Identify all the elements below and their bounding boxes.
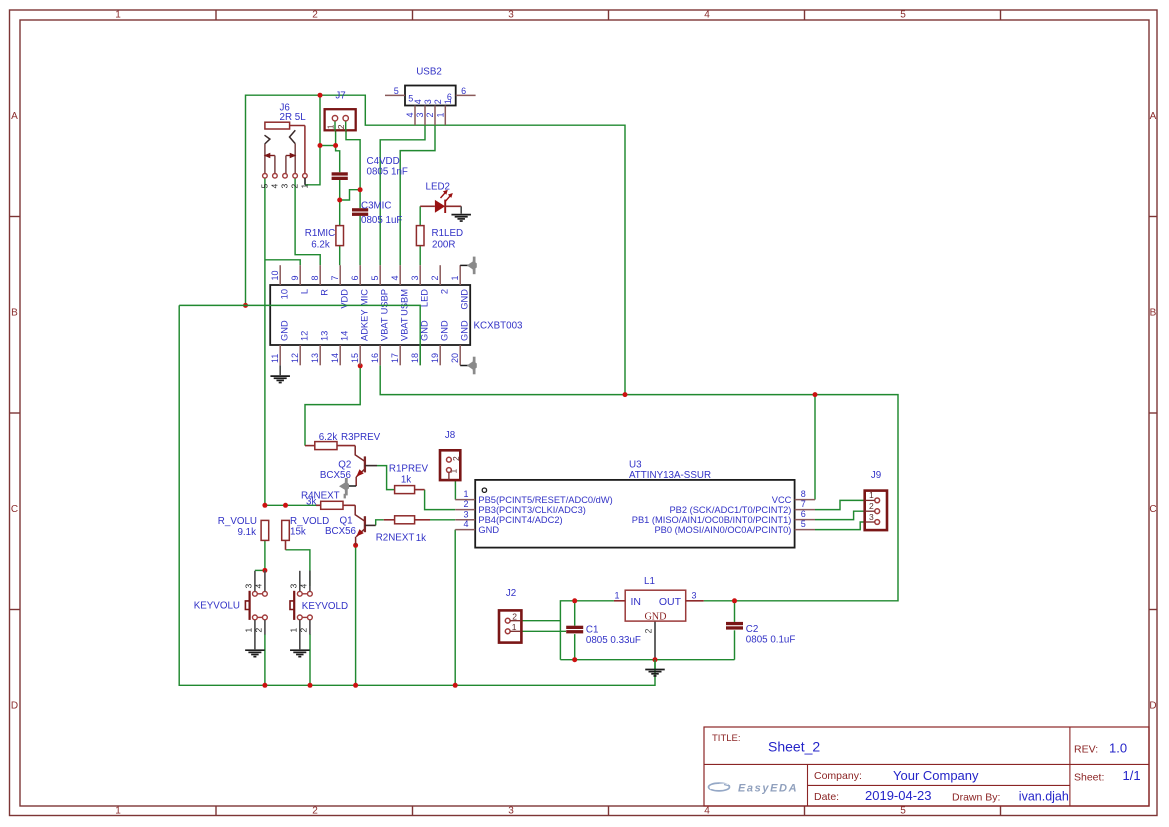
svg-text:3: 3 (244, 584, 254, 589)
svg-text:GND: GND (439, 320, 449, 341)
connector J8 (440, 450, 461, 480)
ground at KEYVOLD (290, 649, 310, 651)
resistor R1LED (416, 226, 424, 246)
svg-text:14: 14 (330, 353, 340, 363)
svg-text:Your Company: Your Company (893, 768, 979, 783)
wire node step C4VDD to C3MIC (340, 190, 360, 200)
wire KEYVOLD pin2 to gnd rail (309, 634, 311, 685)
wire key divider horizontal (265, 504, 316, 506)
wire U3 pin6 to J9 pin2 (815, 511, 865, 519)
wire J2 pin1 to gnd (521, 630, 566, 632)
svg-text:VBAT: VBAT (379, 317, 389, 341)
svg-text:0805 1nF: 0805 1nF (367, 167, 408, 178)
svg-text:3: 3 (415, 112, 425, 117)
svg-text:USBM: USBM (399, 289, 409, 316)
wire R1LED to pin3 LED (419, 246, 421, 266)
capacitor C2 (726, 622, 743, 625)
svg-text:7: 7 (330, 275, 340, 280)
wire R_VOLD to KEYVOLD pin4 (286, 550, 310, 586)
svg-text:3: 3 (691, 590, 696, 600)
svg-text:18: 18 (410, 353, 420, 363)
wire Q1 base jog to R2NEXT (376, 520, 384, 526)
svg-text:4: 4 (413, 99, 423, 104)
svg-text:A: A (11, 111, 18, 122)
svg-text:KCXBT003: KCXBT003 (474, 320, 524, 331)
wire R2NEXT to U3 pin3 (430, 519, 455, 521)
connector J2 (499, 610, 521, 642)
svg-text:PB4(PCINT4/ADC2): PB4(PCINT4/ADC2) (478, 515, 562, 525)
svg-text:1k: 1k (401, 475, 411, 486)
svg-text:4: 4 (254, 584, 264, 589)
svg-text:15k: 15k (290, 527, 306, 538)
svg-text:9: 9 (290, 275, 300, 280)
capacitor C1 (566, 626, 583, 629)
transistor Q2 BCX56 (355, 446, 377, 486)
capacitor C4VDD (332, 172, 348, 175)
svg-text:15: 15 (350, 353, 360, 363)
svg-text:2: 2 (312, 10, 318, 21)
svg-text:C: C (11, 504, 18, 515)
svg-text:1k: 1k (416, 533, 426, 544)
svg-text:4: 4 (704, 10, 710, 21)
svg-text:5: 5 (370, 275, 380, 280)
U3 pin numbers left (463, 489, 468, 529)
svg-text:J7: J7 (335, 91, 345, 102)
svg-text:1: 1 (288, 628, 298, 633)
wire KEYVOLU pin2 to gnd rail (264, 634, 266, 685)
resistor R_VOLD (285, 505, 287, 520)
svg-text:0805 1uF: 0805 1uF (361, 215, 402, 226)
svg-text:L1: L1 (644, 576, 655, 587)
J6 pin labels 5 4 3 2 1 (260, 184, 310, 189)
KCXBT003 pin numbers top (270, 270, 460, 280)
wire U3 pin4 GND to rail (454, 530, 456, 686)
svg-text:USB2: USB2 (416, 67, 442, 78)
LED LED2 (420, 190, 461, 213)
svg-text:2: 2 (463, 499, 468, 509)
svg-text:1: 1 (115, 806, 121, 817)
svg-text:B: B (1150, 308, 1157, 319)
svg-text:5: 5 (260, 184, 270, 189)
ground at pin11 (279, 365, 281, 375)
ground at KEYVOLU (245, 649, 265, 651)
net flag at pin1 (460, 264, 469, 266)
svg-text:R: R (319, 289, 329, 296)
svg-text:2: 2 (644, 629, 654, 634)
junction dots (243, 303, 248, 308)
KCXBT003 pin numbers bottom (270, 353, 460, 363)
svg-text:10: 10 (279, 289, 289, 299)
svg-text:17: 17 (390, 353, 400, 363)
svg-text:J2: J2 (506, 588, 516, 599)
svg-text:LED: LED (419, 289, 429, 307)
svg-text:4: 4 (390, 275, 400, 280)
svg-text:R3PREV: R3PREV (341, 432, 381, 443)
wire USB pin2 to pin4 USBM (400, 125, 435, 265)
wire C4VDD top (336, 146, 340, 173)
wire R_VOLU to KEYVOLU (264, 540, 266, 570)
wire C4VDD bottom to node (339, 180, 341, 200)
wire J6 pin2 to pin8 R (295, 178, 320, 265)
svg-text:1.0: 1.0 (1109, 741, 1127, 756)
svg-text:1: 1 (325, 124, 335, 129)
wire gnd rail C1-C2 (560, 659, 734, 661)
svg-text:14: 14 (339, 331, 349, 341)
KCXBT003 pin names top (279, 289, 469, 316)
svg-text:R2NEXT: R2NEXT (376, 532, 415, 543)
svg-text:R1LED: R1LED (432, 228, 464, 239)
wire ADKEY net horizontal (179, 305, 420, 365)
connector J9 (865, 490, 887, 530)
svg-text:PB0 (MOSI/AIN0/OC0A/PCINT0): PB0 (MOSI/AIN0/OC0A/PCINT0) (654, 525, 791, 535)
svg-text:A: A (1150, 111, 1157, 122)
svg-text:PB5(PCINT5/RESET/ADC0/dW): PB5(PCINT5/RESET/ADC0/dW) (478, 495, 612, 505)
wire J7 pin2 to C3MIC node (346, 130, 360, 189)
svg-text:GND: GND (478, 525, 499, 535)
svg-text:Q2: Q2 (338, 460, 351, 471)
svg-text:1: 1 (443, 99, 453, 104)
resistor R_VOLU (264, 505, 266, 520)
switch KEYVOLD (288, 571, 312, 650)
svg-text:0805 0.33uF: 0805 0.33uF (586, 635, 641, 646)
ground at LED2 (460, 206, 462, 213)
wire Q1 emitter to gnd rail (355, 545, 357, 685)
svg-text:5: 5 (900, 806, 906, 817)
svg-text:PB2 (SCK/ADC1/T0/PCINT2): PB2 (SCK/ADC1/T0/PCINT2) (669, 505, 791, 515)
svg-text:2: 2 (869, 501, 874, 511)
svg-text:R_VOLU: R_VOLU (218, 516, 257, 527)
svg-text:2: 2 (439, 289, 449, 294)
wire top rail VBUS (246, 95, 626, 394)
switch KEYVOLU (244, 571, 268, 650)
svg-text:3: 3 (423, 99, 433, 104)
wire J7 pin1 to rail (319, 95, 321, 145)
U3 pin names right (632, 495, 792, 535)
svg-text:200R: 200R (432, 239, 455, 250)
net flag at pin20 (460, 365, 469, 367)
svg-text:12: 12 (299, 331, 309, 341)
title block (704, 727, 1149, 806)
svg-text:D: D (11, 701, 18, 712)
svg-text:3: 3 (463, 509, 468, 519)
svg-text:4: 4 (299, 584, 309, 589)
svg-text:ivan.djah: ivan.djah (1019, 790, 1069, 804)
svg-text:R4NEXT: R4NEXT (301, 491, 340, 502)
svg-text:LED2: LED2 (426, 181, 451, 192)
svg-text:9.1k: 9.1k (237, 527, 256, 538)
svg-text:GND: GND (644, 611, 666, 622)
svg-text:C4VDD: C4VDD (367, 156, 400, 167)
svg-text:2: 2 (290, 184, 300, 189)
svg-text:Company:: Company: (814, 770, 862, 782)
svg-text:3: 3 (869, 512, 874, 522)
connector J7 (325, 109, 356, 131)
svg-text:C3MIC: C3MIC (361, 201, 391, 212)
svg-text:4: 4 (405, 112, 415, 117)
KCXBT003 pin names bottom (279, 309, 469, 341)
svg-text:GND: GND (459, 289, 469, 310)
IC U2 KCXBT003 (270, 265, 470, 365)
svg-text:13: 13 (310, 353, 320, 363)
svg-text:Sheet_2: Sheet_2 (768, 739, 820, 755)
resistor R1MIC (339, 226, 341, 246)
svg-text:1: 1 (512, 622, 517, 632)
svg-text:KEYVOLD: KEYVOLD (302, 601, 348, 612)
svg-text:8: 8 (310, 275, 320, 280)
regulator L1 (614, 590, 704, 633)
svg-text:3: 3 (288, 584, 298, 589)
svg-text:13: 13 (319, 331, 329, 341)
resistor R2NEXT (384, 519, 395, 521)
svg-text:Drawn By:: Drawn By: (952, 792, 1000, 804)
resistor R3PREV (305, 445, 315, 447)
wire R1LED top lead (419, 206, 421, 225)
svg-text:4: 4 (463, 519, 468, 529)
svg-text:6.2k: 6.2k (319, 432, 338, 443)
U3 pin numbers right (801, 489, 806, 529)
wire left rail to bottom gnd rail (179, 305, 655, 685)
wire Q2 base to R1PREV (377, 466, 395, 490)
svg-text:4: 4 (704, 806, 710, 817)
svg-text:5: 5 (801, 519, 806, 529)
capacitor C3MIC (352, 208, 368, 211)
svg-text:KEYVOLU: KEYVOLU (194, 600, 240, 611)
svg-text:10: 10 (270, 270, 280, 280)
svg-text:BCX56: BCX56 (325, 526, 357, 537)
svg-text:PB1 (MISO/AIN1/OC0B/INT0/PCINT: PB1 (MISO/AIN1/OC0B/INT0/PCINT1) (632, 515, 792, 525)
svg-text:VBAT: VBAT (399, 317, 409, 341)
wire KEYVOLU pin3 pin4 tie (255, 569, 265, 571)
svg-text:7: 7 (801, 499, 806, 509)
svg-text:2: 2 (430, 275, 440, 280)
svg-text:3: 3 (508, 806, 514, 817)
svg-text:5: 5 (394, 86, 399, 96)
svg-text:B: B (11, 308, 18, 319)
IC U3 ATTINY13A-SSUR (455, 480, 815, 548)
svg-text:GND: GND (459, 320, 469, 341)
svg-text:C: C (1149, 504, 1156, 515)
resistor R1PREV (395, 486, 415, 494)
wire J2 pin2 to L1 IN (521, 620, 560, 622)
svg-text:TITLE:: TITLE: (712, 733, 741, 744)
svg-text:EasyEDA: EasyEDA (738, 783, 798, 795)
svg-text:MIC: MIC (359, 289, 369, 306)
ground at L1 (654, 660, 656, 669)
svg-text:1: 1 (436, 112, 446, 117)
svg-text:2: 2 (425, 112, 435, 117)
wire J6 pin1 to J7 node (305, 146, 320, 185)
svg-text:2: 2 (312, 806, 318, 817)
svg-text:USBP: USBP (379, 289, 389, 314)
wire IN node (560, 601, 614, 660)
svg-text:Q1: Q1 (339, 516, 352, 527)
svg-text:GND: GND (279, 320, 289, 341)
wire C3MIC top lead (359, 190, 361, 209)
svg-text:J8: J8 (445, 430, 456, 441)
svg-text:1/1: 1/1 (1123, 768, 1141, 783)
svg-text:8: 8 (801, 489, 806, 499)
svg-text:REV:: REV: (1074, 744, 1098, 756)
connector USB2 (385, 86, 476, 126)
wire U3 pin5 to J9 pin3 (815, 522, 865, 530)
svg-text:12: 12 (290, 353, 300, 363)
svg-text:R1MIC: R1MIC (305, 228, 335, 239)
svg-text:VCC: VCC (772, 495, 792, 505)
svg-text:2019-04-23: 2019-04-23 (865, 788, 932, 803)
svg-text:Date:: Date: (814, 791, 839, 803)
connector J6 2R 5L jack (263, 122, 308, 185)
svg-text:2: 2 (254, 628, 264, 633)
svg-text:20: 20 (450, 353, 460, 363)
svg-text:6.2k: 6.2k (311, 239, 330, 250)
svg-text:16: 16 (370, 353, 380, 363)
svg-text:IN: IN (631, 596, 642, 608)
svg-text:L: L (299, 289, 309, 294)
svg-text:2: 2 (512, 611, 517, 621)
svg-text:2: 2 (451, 456, 461, 461)
svg-text:3: 3 (508, 10, 514, 21)
resistor R4NEXT (316, 504, 321, 506)
wire pin15 ADKEY to R3PREV (305, 366, 360, 446)
svg-text:5: 5 (900, 10, 906, 21)
svg-text:0805 0.1uF: 0805 0.1uF (746, 634, 796, 645)
svg-text:1: 1 (463, 489, 468, 499)
svg-text:1: 1 (614, 590, 619, 600)
svg-text:6: 6 (801, 509, 806, 519)
svg-text:2: 2 (336, 124, 346, 129)
svg-text:6: 6 (461, 86, 466, 96)
wire USB pin3 to pin5 USBP (380, 125, 425, 265)
svg-text:1: 1 (449, 469, 459, 474)
svg-text:1: 1 (300, 184, 310, 189)
svg-text:1: 1 (869, 490, 874, 500)
svg-text:11: 11 (270, 354, 280, 363)
wire R1PREV to U3 pin2 (425, 490, 456, 510)
svg-text:6: 6 (350, 275, 360, 280)
wire pin16 VBAT to VCC rail (380, 365, 898, 601)
svg-text:PB3(PCINT3/CLKI/ADC3): PB3(PCINT3/CLKI/ADC3) (478, 505, 585, 515)
svg-text:R1PREV: R1PREV (389, 464, 429, 475)
wire L1 GND to rail (654, 621, 656, 660)
svg-text:Sheet:: Sheet: (1074, 772, 1104, 784)
svg-text:1: 1 (450, 275, 460, 280)
svg-text:D: D (1149, 701, 1156, 712)
wire C3MIC to pin6 MIC (359, 216, 361, 265)
wire C1 leads (574, 601, 576, 626)
wire VCC to U3 pin8 (814, 395, 816, 500)
svg-text:1: 1 (115, 10, 121, 21)
wire J6 pin5 to pin9 L and key divider (264, 178, 266, 505)
svg-text:J9: J9 (871, 470, 881, 481)
transistor Q1 BCX56 (355, 505, 376, 545)
svg-text:2R 5L: 2R 5L (280, 112, 307, 123)
svg-text:3: 3 (410, 275, 420, 280)
wire J7 pin1 down (335, 130, 337, 145)
wire C2 leads (734, 601, 736, 622)
svg-text:2: 2 (433, 99, 443, 104)
svg-text:3: 3 (280, 184, 290, 189)
svg-text:C1: C1 (586, 624, 599, 635)
U3 pin names left (478, 495, 612, 535)
svg-text:U3: U3 (629, 459, 642, 470)
svg-text:OUT: OUT (659, 596, 682, 608)
svg-text:ATTINY13A-SSUR: ATTINY13A-SSUR (629, 470, 711, 481)
wire R1MIC top lead (339, 200, 341, 226)
wire R1MIC to pin7 VDD (339, 246, 341, 266)
svg-text:ADKEY: ADKEY (359, 309, 369, 341)
svg-text:1: 1 (244, 628, 254, 633)
wire J8 pin1 to U3 pin1 (454, 480, 456, 500)
svg-text:C2: C2 (746, 624, 759, 635)
svg-text:19: 19 (430, 353, 440, 363)
svg-text:4: 4 (270, 184, 280, 189)
net flag at Q2 emitter (346, 485, 357, 487)
svg-text:2: 2 (299, 628, 309, 633)
wire U3 pin7 to J9 pin1 (815, 500, 865, 509)
